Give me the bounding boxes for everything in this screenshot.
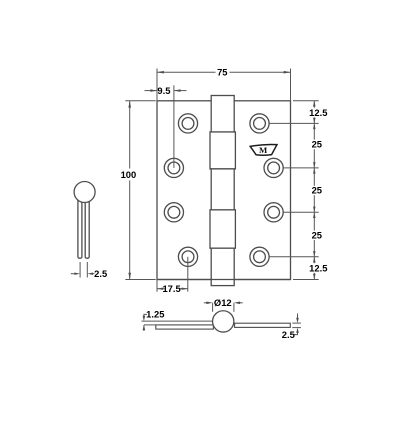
- knuckle segment 5 (bottom tab): [211, 248, 234, 285]
- svg-text:12.5: 12.5: [309, 262, 327, 273]
- svg-text:75: 75: [217, 67, 227, 78]
- hole R3: [264, 203, 283, 222]
- dim dia12 line: [204, 302, 209, 304]
- svg-text:M: M: [259, 145, 268, 155]
- pin dim 2.5 extension lines: [79, 262, 81, 278]
- arrows dim dia12: [206, 302, 212, 305]
- dim 75 extension lines: [156, 69, 158, 101]
- hole L2: [164, 158, 183, 177]
- dim 17.5 extension lines: [156, 280, 158, 292]
- arrows top dim 75: [128, 71, 315, 304]
- hinge leaf outline: [157, 101, 291, 280]
- hole L4: [178, 247, 197, 266]
- hole L3: [164, 203, 183, 222]
- right chain tick top edge: [293, 100, 319, 102]
- dim 9.5 line: [145, 90, 157, 92]
- svg-text:25: 25: [312, 139, 322, 150]
- pin dim 2.5 line: [71, 273, 76, 275]
- dim 17.5 line: [157, 288, 165, 290]
- svg-text:9.5: 9.5: [157, 85, 170, 96]
- svg-text:25: 25: [312, 185, 322, 196]
- pin dim arrows: [74, 273, 80, 275]
- right chain tick bottom edge: [293, 279, 319, 281]
- knuckle circle: [213, 311, 234, 332]
- pin leg left: [78, 198, 82, 258]
- svg-text:17.5: 17.5: [162, 283, 180, 294]
- dim 2.5 thickness leader: [292, 314, 301, 335]
- right chain tick hole R4: [269, 256, 319, 258]
- right chain tick hole R1: [269, 122, 319, 124]
- hinge bottom edge (continuous across tab): [157, 279, 291, 281]
- hole R2: [264, 158, 283, 177]
- knuckle segment 4 (wide): [210, 210, 235, 248]
- right chain dim line: [313, 101, 315, 108]
- svg-text:1.25: 1.25: [146, 309, 164, 320]
- arrows dim 9.5: [150, 89, 156, 92]
- pin leg right: [85, 198, 89, 258]
- dim 1.25 leader: [144, 314, 156, 330]
- dim 9.5 extension to hole L2: [173, 85, 175, 168]
- left leaf edge bar: [156, 325, 214, 329]
- svg-text:100: 100: [121, 169, 137, 180]
- dim 75 line: [157, 71, 216, 73]
- svg-text:12.5: 12.5: [309, 107, 327, 118]
- hole R1: [250, 114, 269, 133]
- svg-text:Ø12: Ø12: [214, 297, 232, 308]
- arrows dim 100: [128, 101, 131, 108]
- dim 100 extension lines: [125, 100, 155, 102]
- svg-text:2.5: 2.5: [282, 329, 295, 340]
- pin line: [142, 320, 214, 322]
- pin ball head: [74, 182, 95, 203]
- dim 100 line: [129, 101, 131, 169]
- knuckle segment 3: [211, 169, 234, 210]
- hole L1: [178, 114, 197, 133]
- knuckle segment 2 (wide): [210, 132, 235, 169]
- right chain tick hole R3: [283, 211, 318, 213]
- arrows right chain: [313, 101, 316, 107]
- knuckle segment 1 (top tab): [211, 96, 234, 132]
- M maker logo: [250, 144, 277, 155]
- svg-text:25: 25: [312, 230, 322, 241]
- right leaf edge bar: [235, 323, 291, 327]
- svg-text:2.5: 2.5: [94, 268, 107, 279]
- right chain tick hole R2: [283, 167, 318, 169]
- hole R4: [250, 247, 269, 266]
- dim dia12 extension lines: [212, 303, 214, 312]
- arrows dim 17.5: [157, 288, 163, 290]
